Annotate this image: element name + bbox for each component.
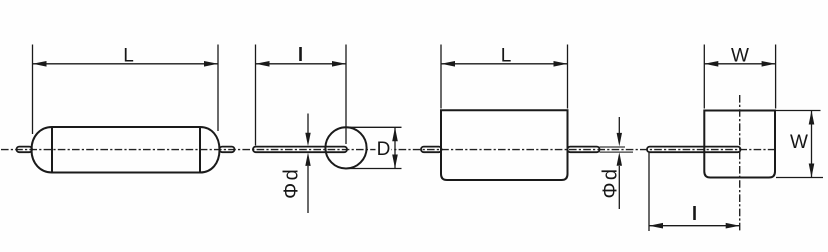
lead wire right (box side view) (568, 147, 600, 153)
dimension l (lead length, second view) (256, 45, 347, 146)
lead wire left (box side view) (421, 147, 442, 153)
svg-text:Φd: Φd (599, 166, 621, 198)
capacitor body, cylindrical side view (32, 127, 220, 173)
label D (circle diameter) (376, 139, 392, 160)
svg-text:Φd: Φd (281, 167, 303, 199)
lead wire left (cylinder side view) (17, 147, 33, 153)
svg-text:L: L (501, 46, 512, 67)
lead wire (second view, long lead into circular end view) (253, 147, 347, 153)
svg-text:W: W (731, 46, 749, 67)
lead wire (square end view) (647, 147, 741, 153)
dimension L (box length) (441, 45, 568, 109)
svg-text:l: l (692, 204, 697, 225)
lead wire right (cylinder side view) (220, 147, 235, 153)
circular end view D (325, 127, 366, 168)
svg-text:l: l (298, 45, 303, 66)
dimension W right (square height) (776, 111, 823, 178)
svg-text:D: D (377, 139, 391, 160)
lead wire right thin extension (box side view) (600, 147, 634, 152)
dimension L (cylinder length) (33, 45, 219, 135)
dimension leader phi-d (lead diameter, box view) (617, 117, 622, 209)
svg-text:W: W (790, 132, 808, 153)
dimension D (circle diameter) (347, 127, 402, 168)
capacitor body, rectangular box side view (441, 110, 568, 180)
dimension leader phi-d (lead diameter, second view) (305, 114, 310, 214)
dimension W top (square width) (704, 45, 775, 109)
axis centerline (horizontal dash-dot through drawings 1-4) (1, 149, 775, 151)
vertical centerline (square end view) (739, 95, 741, 231)
capacitor body, square end view (704, 111, 775, 178)
svg-text:L: L (123, 46, 134, 67)
dimension l bottom (lead length, square end view) (649, 153, 740, 231)
